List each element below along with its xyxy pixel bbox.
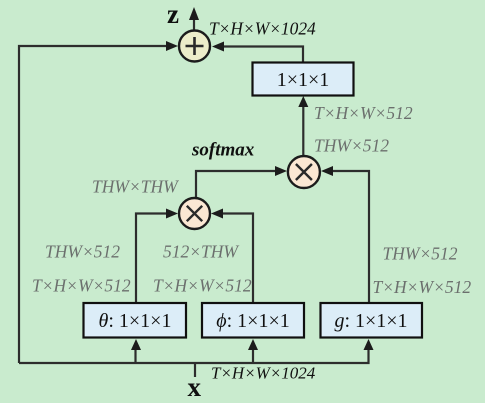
wire: 1x1x1 box output to plus [222, 47, 303, 63]
svg-text:ϕ: 1×1×1: ϕ: 1×1×1 [216, 310, 289, 332]
arrowhead into plus circle right [212, 42, 224, 52]
wire: plus output up to z [193, 19, 195, 30]
svg-text:T×H×W×512: T×H×W×512 [373, 277, 472, 297]
adder (plus circle) [179, 31, 210, 62]
wire: g box to upper multiply [332, 171, 369, 303]
lower multiply circle [179, 198, 210, 229]
svg-text:T×H×W×1024: T×H×W×1024 [209, 19, 316, 39]
arrowhead into g box bottom [364, 339, 374, 350]
box: theta 1x1x1 [84, 303, 187, 338]
arrowhead into phi box bottom [248, 339, 258, 350]
svg-text:g: 1×1×1: g: 1×1×1 [334, 310, 407, 332]
svg-text:T×H×W×512: T×H×W×512 [314, 103, 413, 123]
arrowhead into plus circle left [166, 41, 178, 51]
arrowhead into upper multiply right [321, 166, 333, 176]
svg-text:THW×THW: THW×THW [92, 177, 179, 197]
arrowhead into 1x1x1 box bottom [298, 96, 308, 107]
svg-text:T×H×W×512: T×H×W×512 [32, 276, 131, 296]
arrowhead into lower multiply right [211, 209, 223, 219]
svg-text:THW×512: THW×512 [383, 244, 458, 264]
svg-text:512×THW: 512×THW [163, 242, 239, 262]
box: 1x1x1 conv [253, 63, 354, 96]
svg-text:z: z [167, 0, 179, 29]
wire: upper multiply up to 1x1x1 box [302, 106, 304, 155]
svg-text:THW×512: THW×512 [45, 242, 120, 262]
arrowhead into lower multiply left [166, 209, 178, 219]
arrowhead into upper multiply left [275, 166, 287, 176]
svg-text:THW×512: THW×512 [314, 136, 389, 156]
svg-text:θ: 1×1×1: θ: 1×1×1 [99, 310, 172, 332]
wire: branch up to phi box [252, 347, 254, 363]
svg-text:1×1×1: 1×1×1 [277, 69, 330, 91]
svg-text:x: x [188, 372, 202, 402]
wire: phi box to lower multiply [222, 214, 253, 304]
svg-text:T×H×W×512: T×H×W×512 [153, 276, 252, 296]
arrowhead into theta box bottom [131, 339, 141, 350]
upper multiply circle [288, 156, 320, 188]
wire: tick from x label to bus [194, 363, 196, 377]
wire: lower multiply through softmax to upper multiply [196, 171, 277, 197]
wire: theta box to lower multiply [136, 214, 168, 304]
svg-text:T×H×W×1024: T×H×W×1024 [211, 364, 316, 383]
box: phi 1x1x1 [202, 303, 304, 338]
box: g 1x1x1 [321, 303, 423, 338]
wire: bottom input bus from x [19, 347, 369, 363]
wire: branch up to theta box [134, 347, 136, 363]
wire: residual skip path (left vertical + top horizontal into plus) [19, 46, 169, 363]
arrowhead of z output [189, 7, 199, 20]
svg-text:softmax: softmax [191, 140, 255, 161]
